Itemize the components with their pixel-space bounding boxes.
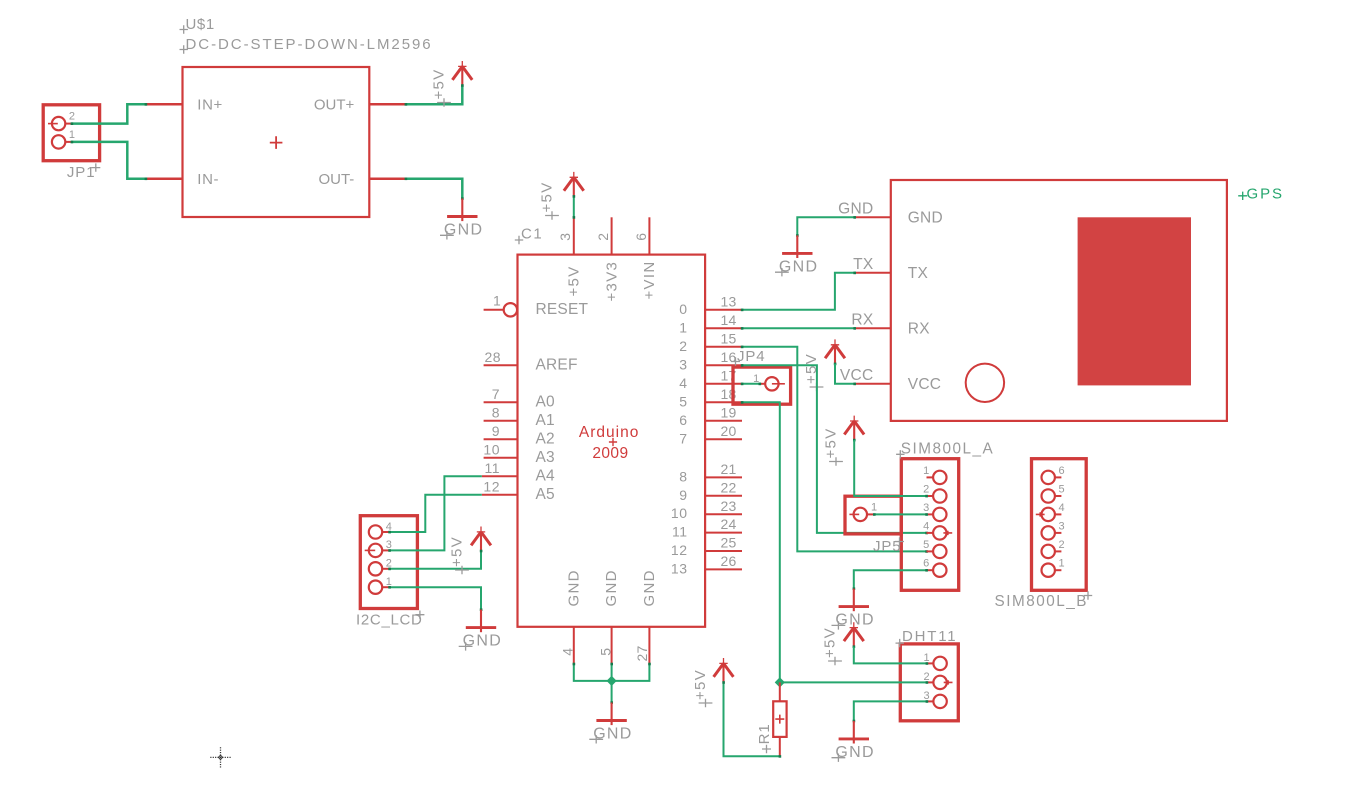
svg-text:+5V: +5V xyxy=(539,181,556,212)
svg-text:VCC: VCC xyxy=(908,376,941,393)
pin 1 RESET xyxy=(484,309,504,311)
svg-text:12: 12 xyxy=(483,479,500,495)
svg-text:+5V: +5V xyxy=(692,669,709,700)
svg-text:R1: R1 xyxy=(756,723,773,744)
pin 16 (D3) xyxy=(705,364,742,366)
svg-text:A2: A2 xyxy=(536,430,555,447)
svg-text:+5V: +5V xyxy=(449,536,466,567)
pin 2 (+3V3) xyxy=(611,217,613,254)
SIM800L_A pad 3 xyxy=(933,508,946,521)
I2C_LCD pad 2 xyxy=(369,562,382,575)
ground (DHT11.3) xyxy=(853,720,856,723)
SIM800L_B pad 1 xyxy=(1042,564,1055,577)
pin 8 A1 xyxy=(484,420,518,422)
svg-text:16: 16 xyxy=(721,349,737,365)
svg-text:GND: GND xyxy=(835,612,874,629)
svg-text:JP4: JP4 xyxy=(737,348,766,365)
DHT11 pad 2 xyxy=(933,676,946,689)
pin OUT+ xyxy=(369,103,406,106)
wire JP5.1 to SIM800L_A.3 xyxy=(874,513,926,515)
supply +5V (IC1 pin3) xyxy=(564,177,584,191)
pin 18 (D5) xyxy=(705,401,742,403)
SIM800L_A pad 6 xyxy=(933,564,946,577)
svg-text:+3V3: +3V3 xyxy=(603,261,620,302)
connector I2C_LCD xyxy=(360,516,417,609)
DHT11 origin cross xyxy=(944,680,953,684)
svg-text:GND: GND xyxy=(463,633,502,650)
I2C_LCD origin cross xyxy=(365,549,376,551)
svg-text:24: 24 xyxy=(721,516,737,532)
pin 5 GND xyxy=(611,627,613,664)
svg-text:1: 1 xyxy=(493,293,501,309)
pin 11 A4 xyxy=(482,475,518,477)
svg-text:C1: C1 xyxy=(521,226,543,243)
svg-text:2009: 2009 xyxy=(592,445,628,462)
pin 15 (D2) xyxy=(705,346,742,348)
wire D0 to GPS TX xyxy=(742,273,855,310)
svg-text:5: 5 xyxy=(1059,483,1065,495)
svg-text:AREF: AREF xyxy=(536,356,578,373)
svg-text:8: 8 xyxy=(492,405,500,421)
wire D3 to SIM800L_A.4 xyxy=(742,365,927,533)
pin 23 (D10) xyxy=(705,513,742,515)
svg-text:6: 6 xyxy=(1059,465,1065,477)
svg-text:TX: TX xyxy=(908,265,929,282)
svg-text:DHT11: DHT11 xyxy=(902,628,957,645)
supply +5V (DHT11.1) xyxy=(844,628,864,642)
wire +5V to SIM800L_A.2 xyxy=(854,440,926,496)
svg-text:A3: A3 xyxy=(536,449,555,466)
svg-text:1: 1 xyxy=(679,319,687,335)
JP4 pad 1 xyxy=(765,377,778,390)
wire JP1.2 to IN+ xyxy=(71,104,146,123)
JP4 origin cross xyxy=(772,383,785,385)
JP1 origin cross xyxy=(48,123,58,125)
supply +5V (I2C_LCD) xyxy=(471,532,491,546)
svg-text:15: 15 xyxy=(721,330,737,346)
svg-text:1: 1 xyxy=(871,501,877,513)
svg-text:27: 27 xyxy=(634,646,650,662)
svg-text:3: 3 xyxy=(923,502,929,514)
svg-text:12: 12 xyxy=(671,542,688,558)
svg-text:VCC: VCC xyxy=(840,367,874,384)
pin 4 GND xyxy=(573,627,575,664)
SIM800L_A pad 5 xyxy=(933,545,946,558)
GPS circle xyxy=(966,364,1004,402)
svg-text:GND: GND xyxy=(603,569,620,606)
svg-text:14: 14 xyxy=(721,312,737,328)
svg-text:GND: GND xyxy=(838,200,873,217)
svg-text:1: 1 xyxy=(69,129,75,141)
connector JP1 xyxy=(43,105,99,161)
wire SIM800L_A.6 to ground xyxy=(854,570,927,588)
svg-text:5: 5 xyxy=(923,539,929,551)
wire GPS GND to ground xyxy=(797,217,854,235)
svg-text:9: 9 xyxy=(679,487,687,503)
supply +5V (R1) xyxy=(714,663,734,677)
svg-text:13: 13 xyxy=(721,293,737,309)
junction xyxy=(607,676,617,686)
GPS pin GND xyxy=(855,216,891,218)
GPS pin VCC xyxy=(855,383,891,385)
svg-text:IN+: IN+ xyxy=(197,96,223,113)
svg-text:4: 4 xyxy=(560,648,576,656)
svg-text:19: 19 xyxy=(721,404,737,420)
svg-text:3: 3 xyxy=(1059,520,1065,532)
svg-text:2: 2 xyxy=(923,671,929,683)
pin 9 A2 xyxy=(484,438,518,440)
pin 28 AREF xyxy=(484,364,518,366)
svg-text:RESET: RESET xyxy=(536,301,589,318)
svg-text:13: 13 xyxy=(671,560,688,576)
svg-text:I2C_LCD: I2C_LCD xyxy=(356,612,423,629)
supply +5V (OUT+) xyxy=(452,66,472,80)
svg-text:3: 3 xyxy=(557,232,573,240)
svg-text:+5V: +5V xyxy=(431,68,448,99)
label SIM800L_A xyxy=(896,450,904,458)
SIM800L_A pad 2 xyxy=(933,489,946,502)
pin 24 (D11) xyxy=(705,532,742,534)
I2C_LCD pad 3 xyxy=(369,544,382,557)
ground (I2C_LCD) xyxy=(480,608,483,611)
sheet origin cross xyxy=(210,747,230,767)
svg-text:0: 0 xyxy=(679,301,687,317)
svg-text:7: 7 xyxy=(679,430,687,446)
svg-text:4: 4 xyxy=(1059,502,1065,514)
svg-text:SIM800L_A: SIM800L_A xyxy=(901,440,994,457)
svg-text:26: 26 xyxy=(721,553,737,569)
SIM800L_A pad 4 xyxy=(933,526,946,539)
module GPS xyxy=(891,180,1227,421)
svg-text:OUT+: OUT+ xyxy=(314,96,355,113)
I2C_LCD pad 4 xyxy=(369,525,382,538)
svg-text:23: 23 xyxy=(721,498,737,514)
pin 6 (+VIN) xyxy=(648,217,650,254)
svg-text:GND: GND xyxy=(641,569,658,606)
svg-text:+5V: +5V xyxy=(566,265,583,296)
SIM800L_B pad 5 xyxy=(1042,489,1055,502)
svg-text:GND: GND xyxy=(565,569,582,606)
pin 13 (D0) xyxy=(705,309,742,311)
svg-text:A4: A4 xyxy=(536,467,556,484)
svg-text:10: 10 xyxy=(483,442,500,458)
SIM800L_B pad 6 xyxy=(1042,471,1055,484)
wire pin3 to +5V xyxy=(573,196,575,217)
svg-text:6: 6 xyxy=(923,558,929,570)
svg-text:9: 9 xyxy=(492,423,500,439)
GPS pin RX xyxy=(855,327,891,329)
resistor R1 xyxy=(779,682,781,701)
label DC-DC-STEP-DOWN-LM2596 xyxy=(180,45,188,53)
svg-text:JP5: JP5 xyxy=(873,538,902,555)
pin 25 (D12) xyxy=(705,550,742,552)
wire R1 to +5V xyxy=(724,682,780,756)
wire OUT+ to +5V xyxy=(406,85,463,104)
JP5 pad 1 xyxy=(854,508,867,521)
svg-text:SIM800L_B: SIM800L_B xyxy=(995,593,1088,610)
svg-text:1: 1 xyxy=(923,465,929,477)
svg-text:GND: GND xyxy=(444,222,483,239)
pin 10 A3 xyxy=(484,457,518,459)
svg-text:5: 5 xyxy=(679,393,687,409)
svg-text:25: 25 xyxy=(721,535,737,551)
svg-text:+5V: +5V xyxy=(822,627,839,658)
junction (R1/DHT11) xyxy=(775,677,785,687)
pin 7 A0 xyxy=(484,401,518,403)
svg-text:+5V: +5V xyxy=(823,427,840,458)
svg-text:GND: GND xyxy=(908,210,943,227)
ground (IC1) xyxy=(610,701,613,704)
wire IC1 bottom GND net xyxy=(574,664,650,681)
SIM800L_B pad 4 xyxy=(1042,508,1055,521)
pin 17 (D4) xyxy=(705,383,742,385)
pin 21 (D8) xyxy=(705,476,742,478)
wire OUT- to GND xyxy=(406,179,463,199)
pin 26 (D13) xyxy=(705,568,742,570)
svg-text:3: 3 xyxy=(679,356,687,372)
wire D1 to GPS RX xyxy=(742,327,855,329)
svg-text:28: 28 xyxy=(485,349,502,365)
JP5 origin cross xyxy=(849,513,859,515)
svg-text:IN-: IN- xyxy=(197,171,219,188)
wire A5 to I2C_LCD.4 xyxy=(390,495,482,532)
svg-text:TX: TX xyxy=(853,256,874,273)
pin OUT- xyxy=(369,177,406,180)
svg-text:Arduino: Arduino xyxy=(579,424,639,441)
svg-text:4: 4 xyxy=(923,520,929,532)
svg-text:GND: GND xyxy=(779,259,818,276)
svg-text:OUT-: OUT- xyxy=(318,171,354,188)
module U$1 DC-DC-STEP-DOWN-LM2596 xyxy=(183,67,370,217)
svg-text:2: 2 xyxy=(69,110,75,122)
JP1 pad 2 xyxy=(52,117,65,130)
wire I2C_LCD.2 to +5V xyxy=(390,551,482,569)
svg-text:GND: GND xyxy=(835,744,874,761)
wire D5 to R1/DHT11 junction xyxy=(742,402,780,682)
pin 14 (D1) xyxy=(705,327,742,329)
svg-text:8: 8 xyxy=(679,468,687,484)
connector SIM800L_A xyxy=(901,459,958,591)
wire DHT11.3 to ground xyxy=(854,701,927,721)
label U$1 xyxy=(180,25,188,33)
DHT11 pad 3 xyxy=(933,695,946,708)
svg-text:A5: A5 xyxy=(536,486,555,503)
JP1 pad 1 xyxy=(52,135,65,148)
pin 12 A5 xyxy=(482,494,518,496)
connector JP4 xyxy=(733,367,791,404)
SIM800L_B pad 2 xyxy=(1042,545,1055,558)
wire +5V to DHT11.1 xyxy=(854,647,927,664)
I2C_LCD pad 1 xyxy=(369,581,382,594)
svg-text:RX: RX xyxy=(908,321,930,338)
connector JP5 xyxy=(845,496,901,534)
pin 20 (D7) xyxy=(705,438,742,440)
svg-text:11: 11 xyxy=(484,460,500,476)
label C1 xyxy=(515,236,523,244)
svg-text:GND: GND xyxy=(593,726,632,743)
pin 22 (D9) xyxy=(705,495,742,497)
svg-text:5: 5 xyxy=(597,648,613,656)
svg-text:2: 2 xyxy=(595,232,611,240)
svg-text:A1: A1 xyxy=(536,412,555,429)
svg-text:A0: A0 xyxy=(536,393,556,410)
DHT11 pad 1 xyxy=(933,657,946,670)
GPS pin TX xyxy=(855,272,891,274)
pin 3 (+5V) xyxy=(573,217,575,254)
supply +5V (GPS VCC) xyxy=(825,345,845,359)
svg-text:2: 2 xyxy=(679,338,687,354)
ground (GPS) xyxy=(796,234,799,237)
ground (SIM800L_A.6) xyxy=(853,587,856,590)
label GPS xyxy=(1238,192,1247,200)
wire +5V to GPS VCC xyxy=(835,364,855,384)
wire I2C_LCD.1 to GND xyxy=(390,587,482,609)
pin 27 GND xyxy=(648,627,650,664)
SIM800L_B origin cross xyxy=(1036,512,1045,516)
wire D4 to JP4.1 xyxy=(742,383,761,385)
svg-text:GPS: GPS xyxy=(1247,186,1284,203)
svg-text:21: 21 xyxy=(721,461,737,477)
svg-text:4: 4 xyxy=(679,375,687,391)
svg-text:2: 2 xyxy=(923,483,929,495)
svg-text:RX: RX xyxy=(851,311,873,328)
label DHT11 xyxy=(896,639,904,647)
svg-text:DC-DC-STEP-DOWN-LM2596: DC-DC-STEP-DOWN-LM2596 xyxy=(186,36,433,53)
label JP4 xyxy=(731,357,740,365)
wire junction to DHT11.2 xyxy=(780,681,927,683)
svg-text:2: 2 xyxy=(1059,539,1065,551)
svg-text:6: 6 xyxy=(679,412,687,428)
wire D2 to SIM800L_A.5 xyxy=(742,347,927,552)
svg-text:22: 22 xyxy=(721,479,737,495)
pin 19 (D6) xyxy=(705,420,742,422)
connector SIM800L_B xyxy=(1032,459,1087,591)
SIM800L_B pad 3 xyxy=(1042,526,1055,539)
svg-text:10: 10 xyxy=(671,505,688,521)
svg-text:JP1: JP1 xyxy=(67,164,96,181)
svg-text:20: 20 xyxy=(721,423,737,439)
connector DHT11 xyxy=(900,644,958,721)
supply +5V (SIM800L_A.2) xyxy=(844,421,864,435)
wire A4 to I2C_LCD.3 xyxy=(390,476,482,550)
GPS body rectangle xyxy=(1078,217,1191,385)
wire JP1.1 to IN- xyxy=(71,142,146,179)
svg-text:3: 3 xyxy=(923,690,929,702)
svg-text:1: 1 xyxy=(1059,558,1065,570)
IC IC1 Arduino 2009 xyxy=(518,255,706,627)
pin IN- xyxy=(146,177,183,180)
svg-text:+VIN: +VIN xyxy=(641,261,658,300)
svg-text:7: 7 xyxy=(492,386,500,402)
svg-text:6: 6 xyxy=(633,232,649,240)
SIM800L_A pad 1 xyxy=(933,471,946,484)
SIM800L_A origin cross xyxy=(943,531,952,535)
svg-text:U$1: U$1 xyxy=(186,16,215,33)
svg-text:1: 1 xyxy=(923,652,929,664)
pin IN+ xyxy=(146,103,183,106)
svg-text:11: 11 xyxy=(672,524,688,540)
ground (OUT-) xyxy=(461,197,464,200)
